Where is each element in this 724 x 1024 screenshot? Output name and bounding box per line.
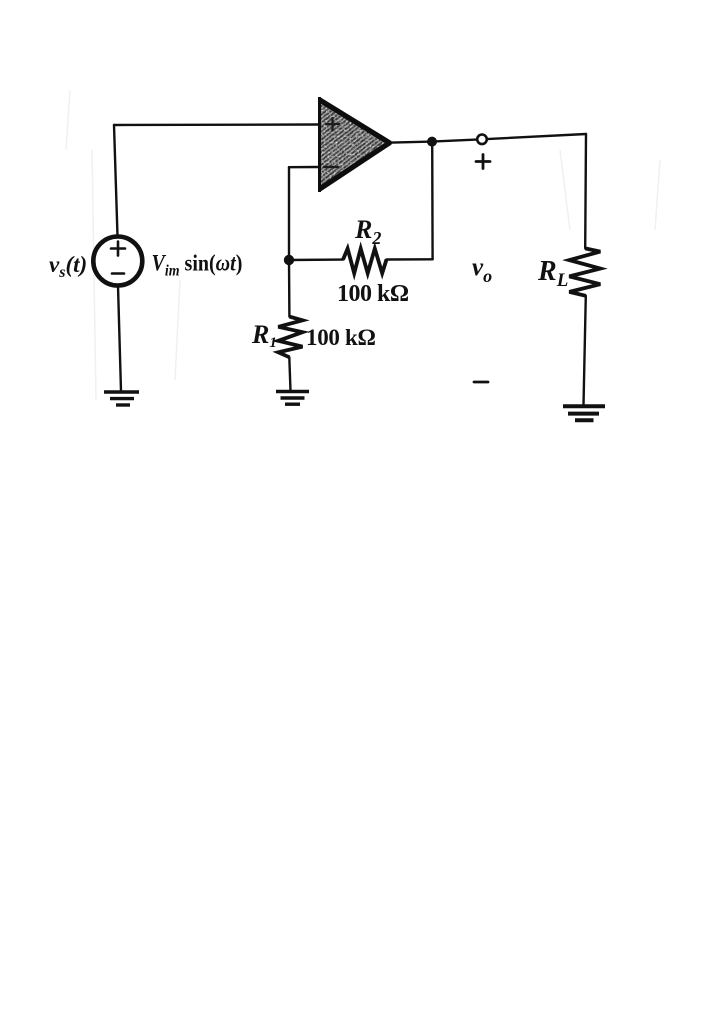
svg-text:RL: RL [537,256,568,291]
svg-text:100 kΩ: 100 kΩ [306,325,376,350]
svg-text:vs(t): vs(t) [49,252,87,281]
svg-text:Vim sin(ωt): Vim sin(ωt) [152,250,243,280]
svg-text:100 kΩ: 100 kΩ [337,281,409,307]
svg-text:R2: R2 [354,215,381,248]
svg-text:R1: R1 [251,320,277,351]
svg-text:vo: vo [472,254,492,286]
